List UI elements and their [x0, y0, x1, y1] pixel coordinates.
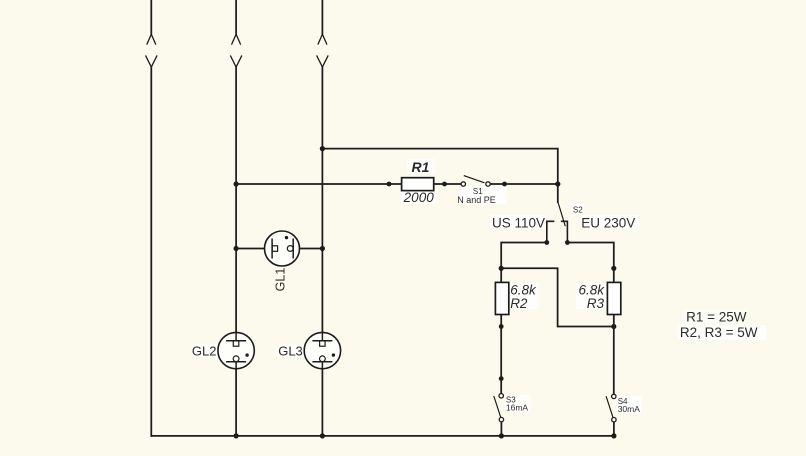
glow lamp GL2	[218, 332, 254, 368]
resistor R1	[402, 178, 434, 191]
svg-text:2000: 2000	[403, 190, 435, 205]
junction dot R3 top	[611, 266, 616, 271]
switch S2 lever	[558, 202, 565, 226]
junction dot S2 common	[555, 181, 560, 186]
junction dot bus/W2	[234, 433, 239, 438]
resistor R3	[607, 282, 620, 314]
connector X2 chevrons	[232, 34, 241, 44]
wire W2 top segment	[235, 0, 237, 34]
junction dot W3/top wire	[320, 146, 325, 151]
wire GL1 right lead	[293, 248, 322, 250]
svg-text:GL2: GL2	[192, 343, 217, 358]
svg-text:S2: S2	[573, 206, 583, 215]
wire S4 to bus	[613, 422, 615, 436]
terminal dot R1 right	[442, 182, 447, 187]
switch S4	[606, 394, 616, 422]
wire R1 to S1	[434, 183, 462, 185]
wire W2 lower vertical	[235, 369, 237, 436]
junction dot EU contact	[565, 240, 570, 245]
junction dot R2 top	[499, 266, 504, 271]
wire W3 upper vertical	[321, 67, 323, 333]
S2 US contact	[547, 221, 555, 242]
svg-text:16mA: 16mA	[506, 403, 529, 413]
wire GL1 left lead	[236, 248, 272, 250]
svg-text:R2: R2	[510, 296, 528, 311]
switch S1	[461, 176, 490, 187]
connector X1 chevrons	[147, 34, 156, 44]
terminal dot R1 left	[387, 182, 392, 187]
wire W3 top segment	[321, 0, 323, 34]
wire R3 bottom to S4	[613, 315, 615, 395]
glow lamp GL1	[265, 231, 300, 266]
junction dot GL1 left	[234, 246, 239, 251]
wire S1 to node	[490, 183, 558, 185]
terminal dot R2 bottom	[499, 324, 504, 329]
connector X3 chevrons	[318, 34, 327, 44]
svg-text:R2, R3 = 5W: R2, R3 = 5W	[680, 325, 758, 340]
wire S3 to bus	[500, 422, 502, 436]
svg-text:N and PE: N and PE	[457, 195, 496, 205]
junction dot US contact	[544, 240, 549, 245]
svg-text:GL1: GL1	[274, 268, 288, 292]
wire R1 line left	[236, 183, 402, 185]
svg-text:R1: R1	[412, 159, 430, 175]
junction dot R3 bottom	[611, 324, 616, 329]
svg-text:30mA: 30mA	[618, 404, 641, 414]
svg-text:EU 230V: EU 230V	[581, 216, 635, 231]
svg-text:GL3: GL3	[278, 343, 303, 358]
wire W1 main vertical	[150, 67, 152, 436]
svg-text:R1 = 25W: R1 = 25W	[686, 310, 747, 325]
wire W1 top segment	[150, 0, 152, 34]
junction dot GL1 right	[320, 246, 325, 251]
wire top horizontal to S2	[322, 149, 557, 202]
resistor R2	[495, 282, 508, 314]
wire W2 upper vertical	[235, 67, 237, 333]
svg-text:R3: R3	[587, 296, 605, 311]
wire EU branch	[567, 243, 613, 283]
wire US branch	[501, 243, 547, 283]
S2 EU contact	[561, 221, 568, 242]
terminal dot S1 right	[502, 182, 507, 187]
wire W3 lower vertical	[321, 369, 323, 436]
label backgrounds	[192, 159, 766, 413]
junction dot bus/W3	[320, 433, 325, 438]
glow lamp GL3	[304, 332, 340, 368]
junction dot bus/S3	[499, 433, 504, 438]
terminal dot S3 top	[499, 376, 504, 381]
wire bottom bus	[151, 435, 614, 437]
junction dot W2/R1 wire	[234, 181, 239, 186]
switch S3	[494, 394, 504, 422]
junction dot bus/S4	[611, 433, 616, 438]
wire crossing R2top-R3bottom	[501, 268, 614, 326]
wire R2 bottom to S3	[500, 315, 502, 394]
svg-text:US 110V: US 110V	[492, 216, 545, 231]
